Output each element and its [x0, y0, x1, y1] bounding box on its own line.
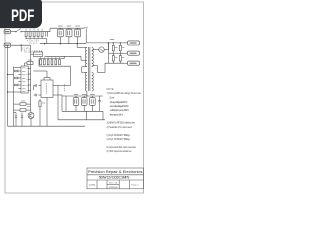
connector J3: [124, 41, 139, 45]
electrolytic C8: [66, 26, 72, 44]
wire primary feed top: [77, 44, 87, 48]
svg-text:Precision Repair & Electronics: Precision Repair & Electronics: [88, 169, 142, 174]
capacitor C11: [14, 113, 18, 127]
bulk bottom rail: [40, 43, 86, 45]
wire riser x30: [30, 45, 32, 110]
resistor R9: [14, 109, 31, 112]
svg-text:Doc/Part: Doc/Part: [89, 184, 96, 187]
capacitor C12: [21, 113, 23, 127]
filter cap C21: [112, 53, 114, 63]
bulk top rail: [50, 27, 84, 29]
svg-text:- switching frequency 33kHz: - switching frequency 33kHz: [109, 109, 129, 112]
svg-text:5.) caps electrolytic, wires n: 5.) caps electrolytic, wires need low: [107, 146, 137, 149]
svg-text:Q.1-Q.2 : MOSFET H-Bridge: Q.1-Q.2 : MOSFET H-Bridge: [107, 134, 131, 137]
connector J5: [124, 61, 139, 65]
svg-text:- secondary voltage at 50VAC: - secondary voltage at 50VAC: [109, 105, 129, 108]
output cap C16: [81, 94, 87, 111]
wire riser to driver: [70, 66, 72, 85]
transistor Q5: [28, 110, 34, 126]
wire top rail input: [25, 31, 51, 33]
resistor R10 below driver: [39, 99, 45, 126]
page border frame: [5, 2, 144, 193]
filter cap C20: [119, 43, 121, 53]
electrolytic C7: [57, 26, 63, 44]
svg-text:- primary voltage at 24 VDC: - primary voltage at 24 VDC: [109, 101, 127, 104]
output cap C17: [90, 94, 96, 111]
page background: [0, 0, 149, 198]
left pin bus: [7, 67, 18, 127]
IC U2 small regulator: [31, 50, 43, 56]
svg-text:Q.3-Q.4 : MOSFET H-Bridge: Q.3-Q.4 : MOSFET H-Bridge: [107, 138, 131, 141]
ground bus left: [7, 47, 9, 126]
wire driver down: [46, 98, 48, 127]
switch S1: [15, 27, 24, 32]
capacitor C14 left of U3: [34, 94, 37, 97]
svg-text:C1 470u: C1 470u: [22, 49, 32, 51]
svg-text:NOTE:: NOTE:: [107, 88, 115, 91]
svg-text:R1 10kΩ: R1 10kΩ: [24, 52, 33, 54]
output low rail: [105, 62, 124, 64]
svg-text:1/20/2024: 1/20/2024: [109, 187, 119, 189]
transformer T1 secondary winding: [92, 48, 94, 91]
svg-text:500W 12V DC/DC SMPS: 500W 12V DC/DC SMPS: [99, 176, 129, 180]
filter labels: [115, 47, 118, 49]
connector J1 (battery +): [4, 30, 15, 34]
wire riser to bulk rail: [49, 28, 51, 32]
output top rail: [86, 42, 124, 44]
output mid rail: [109, 52, 125, 54]
output rail lower: [58, 119, 105, 121]
filter cap C19: [112, 43, 114, 53]
svg-text:Rev: A: Rev: A: [109, 182, 117, 185]
notes text block: [107, 88, 142, 153]
main IC U1 PWM controller: [18, 66, 30, 93]
output rectifier rail top: [62, 95, 103, 97]
connector J4: [124, 51, 139, 55]
svg-text:3.) All Rx/Tx IRF3205 shielded: 3.) All Rx/Tx IRF3205 shielded wire: [107, 122, 136, 125]
component D1 above U1: [25, 60, 34, 66]
wire risers to output rail: [57, 86, 59, 120]
resistor R8: [14, 101, 31, 107]
svg-text:4.) heatsinks 17A, wires need: 4.) heatsinks 17A, wires need: [107, 126, 133, 129]
wire secondary to output: [92, 63, 105, 73]
connector J2 (battery -): [4, 43, 31, 47]
wire long horizontal to transformer: [45, 55, 82, 57]
motor/meter M1: [92, 43, 108, 52]
svg-text:PDF: PDF: [11, 7, 34, 25]
wire primary bottom: [82, 67, 87, 96]
filter cap C22: [119, 53, 121, 63]
svg-text:Page 1: Page 1: [131, 185, 139, 187]
node junction J2 wire: [21, 45, 22, 46]
output cap C15: [73, 94, 79, 111]
svg-text:2.) min:: 2.) min:: [109, 97, 115, 100]
opto/driver IC U3: [34, 71, 63, 98]
ground rail bottom: [8, 125, 85, 127]
PDF badge: [0, 0, 42, 28]
capacitor bank C1-C5: [25, 29, 47, 39]
capacitor C6: [46, 32, 48, 44]
output cap C18 small: [98, 96, 101, 111]
electrolytic C9: [75, 26, 81, 44]
svg-text:6.) 3MF caps low-resistance: 6.) 3MF caps low-resistance: [107, 150, 133, 153]
inductor L2 label: [110, 39, 114, 41]
capacitor C13 left of U3: [34, 84, 37, 90]
capacitor C10: [84, 27, 88, 43]
transformer T1 core: [89, 47, 90, 91]
svg-text:1.) Terminal BD wire ratings,: 1.) Terminal BD wire ratings, 5A acc wir…: [107, 92, 142, 95]
svg-text:- freq = approx 33Hz: - freq = approx 33Hz: [109, 113, 124, 116]
output rail mid: [62, 110, 103, 112]
snubber resistor row R2-R7: [39, 56, 71, 66]
wire primary center tap: [81, 56, 85, 60]
svg-text:x5 pcs: x5 pcs: [29, 43, 38, 45]
transformer T1 primary winding: [85, 48, 87, 91]
title block: [87, 168, 144, 189]
